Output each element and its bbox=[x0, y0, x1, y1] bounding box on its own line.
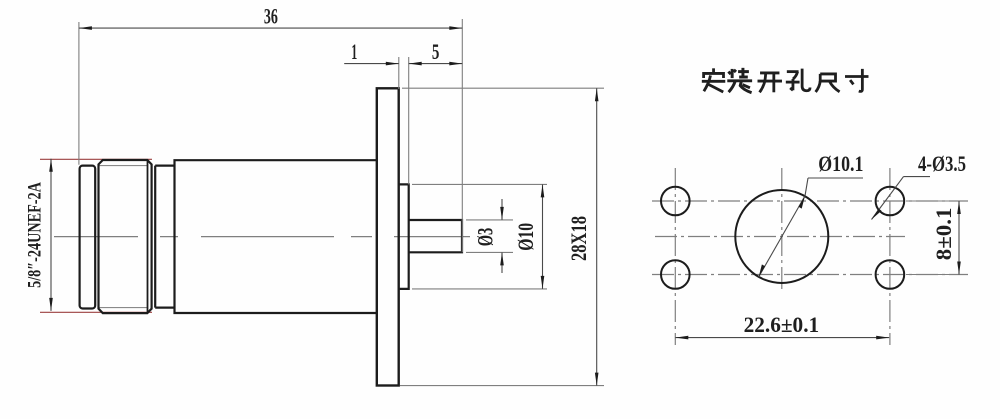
svg-text:22.6±0.1: 22.6±0.1 bbox=[744, 312, 820, 337]
svg-text:5: 5 bbox=[432, 39, 440, 64]
svg-text:Ø10.1: Ø10.1 bbox=[818, 151, 863, 176]
svg-text:1: 1 bbox=[351, 39, 357, 64]
svg-text:8±0.1: 8±0.1 bbox=[931, 208, 956, 261]
svg-text:36: 36 bbox=[264, 4, 278, 29]
svg-text:Ø3: Ø3 bbox=[473, 228, 498, 247]
svg-text:5/8″-24UNEF-2A: 5/8″-24UNEF-2A bbox=[25, 182, 46, 288]
svg-text:Ø10: Ø10 bbox=[513, 223, 538, 251]
svg-text:4-Ø3.5: 4-Ø3.5 bbox=[918, 151, 966, 176]
svg-text:28X18: 28X18 bbox=[566, 216, 591, 261]
